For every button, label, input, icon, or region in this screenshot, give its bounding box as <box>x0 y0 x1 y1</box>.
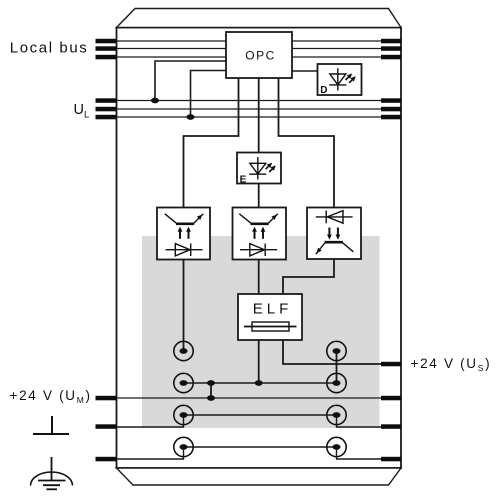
wire row3 right to terminal bar <box>337 415 402 427</box>
module housing front face <box>117 28 402 469</box>
local bus line 1 <box>117 40 402 42</box>
op-amp / controller OPC box <box>226 32 292 78</box>
module housing bottom (floor) <box>117 468 402 485</box>
wire OPC to optocoupler U3 <box>279 78 335 208</box>
local bus line 2 <box>117 48 402 50</box>
terminal bar local bus left 1 <box>96 39 117 44</box>
ELF fuse symbol <box>244 322 297 331</box>
terminal bar FE right <box>381 424 402 429</box>
terminal bar UL right 1 <box>381 98 402 103</box>
wire row 4 horizontal <box>184 446 337 448</box>
optocoupler U2 box <box>233 208 287 260</box>
terminal bar UL right 2 <box>381 107 402 112</box>
optocoupler U3 box <box>307 208 361 260</box>
optocoupler U2 diode <box>240 244 277 257</box>
wire optocoupler U2 to fuse ELF <box>258 260 260 295</box>
wire row 3 horizontal <box>184 414 337 416</box>
svg-text:+24 V (US): +24 V (US) <box>411 356 492 373</box>
UL line 3 <box>117 116 402 118</box>
terminal bar UL left 3 <box>96 115 117 120</box>
local bus line 3 <box>117 56 402 58</box>
node row2 ELF junction <box>255 380 263 386</box>
LED E box <box>237 153 281 184</box>
terminal circle row1 left <box>174 341 193 360</box>
wire OPC to optocoupler U1 <box>184 78 239 208</box>
optocoupler U3 diode <box>316 211 353 224</box>
terminal bar UM right <box>381 396 402 401</box>
svg-text:UL: UL <box>74 102 90 121</box>
wire optocoupler U1 to terminal row 1 left <box>183 260 185 352</box>
wire ELF to +24V US terminal <box>283 340 401 364</box>
terminal bar local bus left 2 <box>96 46 117 51</box>
optocoupler U1 phototransistor <box>165 214 204 224</box>
optocoupler U2 light arrows <box>255 231 264 239</box>
terminal circle row2 left <box>174 373 193 392</box>
node stub bottom <box>207 395 215 401</box>
terminal bar UL right 3 <box>381 115 402 120</box>
terminal bar PE right <box>381 457 402 462</box>
terminal bar local bus right 3 <box>381 55 402 60</box>
wire OPC right to LED D <box>292 70 318 72</box>
LED E symbol <box>249 157 266 180</box>
optocoupler U2 phototransistor <box>239 214 277 224</box>
optocoupler U1 box <box>157 208 210 260</box>
terminal bar UL left 1 <box>96 98 117 103</box>
UL line 2 <box>117 108 402 110</box>
optocoupler U3 phototransistor <box>316 242 354 254</box>
svg-text:E: E <box>240 175 247 186</box>
wire LED E to optocoupler U2 <box>258 184 260 208</box>
terminal circle row3 left <box>174 405 193 424</box>
terminal bar PE left <box>96 457 117 462</box>
wire row4 right to terminal bar <box>337 447 402 459</box>
wire OPC left to UL line 3 <box>191 71 227 118</box>
terminal bar UL left 2 <box>96 107 117 112</box>
PE ground symbol <box>31 457 73 489</box>
terminal bar US right <box>381 362 402 367</box>
wire row2 to UM line stub <box>210 383 212 398</box>
wire row 2 horizontal <box>184 382 337 384</box>
terminal circle row3 right <box>327 405 346 424</box>
wire row4 left to terminal bar <box>117 447 184 459</box>
+24V UM line <box>117 397 402 399</box>
wire optocoupler U3 to fuse ELF <box>283 259 334 294</box>
node stub top <box>207 380 215 386</box>
terminal circle row2 right <box>327 373 346 392</box>
wire OPC to LED E <box>258 78 260 153</box>
svg-text:D: D <box>320 85 327 96</box>
wire terminal row1 right to row2 right <box>336 351 338 383</box>
terminal bar FE left <box>96 424 117 429</box>
wire OPC left to UL line 1 <box>155 61 226 101</box>
node on UL line 1 <box>151 98 159 104</box>
LED D light arrows <box>346 75 355 83</box>
terminal bar UM left <box>96 396 117 401</box>
shaded field area <box>142 236 380 428</box>
FE symbol <box>33 416 69 434</box>
optocoupler U1 diode <box>166 244 203 257</box>
terminal bar local bus right 2 <box>381 46 402 51</box>
wire row3 left to terminal bar <box>117 415 184 427</box>
optocoupler U3 light arrows <box>329 228 338 236</box>
terminal bar local bus right 1 <box>381 39 402 44</box>
fuse ELF box <box>238 294 302 340</box>
terminal circle row4 left <box>174 437 193 456</box>
terminal circle row1 right <box>327 341 346 360</box>
module housing top (roof) <box>117 9 402 28</box>
LED E light arrows <box>266 164 275 172</box>
optocoupler U1 light arrows <box>180 231 189 239</box>
terminal circle row4 right <box>327 437 346 456</box>
LED D box <box>318 64 362 95</box>
svg-text:ELF: ELF <box>253 301 293 318</box>
svg-text:Local bus: Local bus <box>10 40 89 57</box>
LED D symbol <box>329 68 346 90</box>
terminal bar local bus left 3 <box>96 55 117 60</box>
svg-text:+24 V (UM): +24 V (UM) <box>10 388 92 405</box>
wire ELF to row 2 bus <box>258 340 260 383</box>
node on UL line 3 <box>187 114 195 120</box>
svg-text:OPC: OPC <box>245 49 276 63</box>
UL line 1 <box>117 100 402 102</box>
